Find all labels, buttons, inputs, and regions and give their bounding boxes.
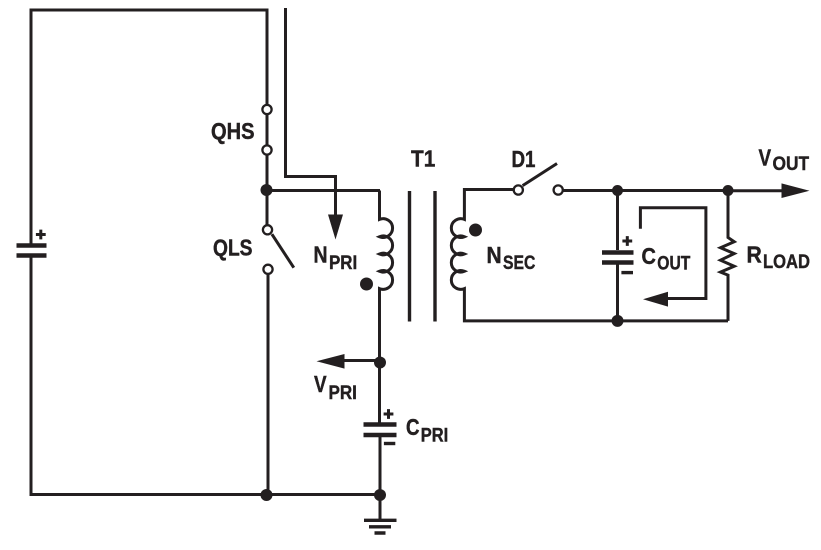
switch QLS open blade <box>272 234 294 268</box>
node: ground rail junction dot right <box>374 489 386 501</box>
svg-text:R: R <box>747 241 762 267</box>
ground symbol <box>379 495 382 519</box>
svg-text:C: C <box>642 243 656 269</box>
diode switch D1 terminal circle left <box>514 185 523 194</box>
svg-text:V: V <box>759 145 772 171</box>
svg-text:OUT: OUT <box>773 153 810 175</box>
capacitor COUT minus mark <box>621 271 633 274</box>
secondary phase dot <box>469 224 482 237</box>
primary phase dot <box>360 278 373 291</box>
wire: QHS closed switch link and lead to node A <box>266 105 269 225</box>
capacitor CPRI plates <box>364 425 397 436</box>
switch QLS terminal circle top <box>263 225 272 234</box>
svg-text:SEC: SEC <box>503 252 535 274</box>
capacitor CPRI top lead dot VPRI node <box>374 357 386 369</box>
wire: node A to primary winding top <box>267 189 381 192</box>
node COUT top junction dot <box>612 185 623 196</box>
svg-text:N: N <box>314 241 328 267</box>
switch QHS terminal circle bottom <box>262 145 271 154</box>
svg-text:T1: T1 <box>411 146 435 172</box>
transformer T1 core lines <box>410 191 436 322</box>
battery plus polarity mark <box>36 230 46 240</box>
resistor RLOAD <box>721 191 735 321</box>
svg-text:D1: D1 <box>512 146 536 172</box>
diode switch D1 terminal circle right <box>554 185 563 194</box>
node VOUT junction dot <box>723 185 734 196</box>
svg-text:PRI: PRI <box>329 252 357 274</box>
capacitor COUT bottom lead <box>616 265 619 321</box>
switch QLS terminal circle bottom <box>263 265 272 274</box>
wire: battery top rail to QHS <box>31 10 267 244</box>
node COUT bottom junction dot <box>612 315 624 327</box>
wire: QLS bottom lead to ground rail <box>267 274 270 495</box>
svg-text:V: V <box>314 371 327 397</box>
svg-text:QHS: QHS <box>211 118 255 144</box>
svg-text:N: N <box>487 242 502 268</box>
battery VIN plates <box>17 246 47 256</box>
wire: D1 to output node <box>563 189 728 192</box>
svg-text:OUT: OUT <box>657 252 690 274</box>
wire: bottom ground rail <box>30 493 381 496</box>
ripple current loop annotation arrow <box>640 208 706 299</box>
svg-text:C: C <box>406 414 420 440</box>
capacitor COUT plates <box>602 253 634 263</box>
VOUT output arrow <box>728 189 783 192</box>
capacitor COUT plus mark <box>622 236 632 246</box>
capacitor CPRI minus mark <box>384 442 395 445</box>
node: ground rail junction dot left <box>261 489 273 501</box>
VPRI annotation arrow <box>342 359 380 362</box>
svg-text:PRI: PRI <box>421 425 448 447</box>
transformer T1 secondary winding NSEC <box>451 190 728 321</box>
node A junction dot (QHS/QLS/primary top) <box>261 184 273 196</box>
capacitor COUT top lead <box>616 191 619 251</box>
wire: CPRI bottom lead <box>379 437 382 495</box>
svg-text:PRI: PRI <box>329 382 357 404</box>
switch QHS terminal circle top <box>262 105 271 114</box>
wire: battery bottom lead <box>30 258 33 495</box>
transformer T1 primary winding NPRI <box>380 191 393 424</box>
svg-text:QLS: QLS <box>213 235 253 261</box>
svg-text:LOAD: LOAD <box>763 251 810 273</box>
capacitor CPRI plus mark <box>384 409 394 419</box>
current annotation arrow into NPRI <box>286 8 336 215</box>
diode switch D1 blade <box>523 164 557 186</box>
